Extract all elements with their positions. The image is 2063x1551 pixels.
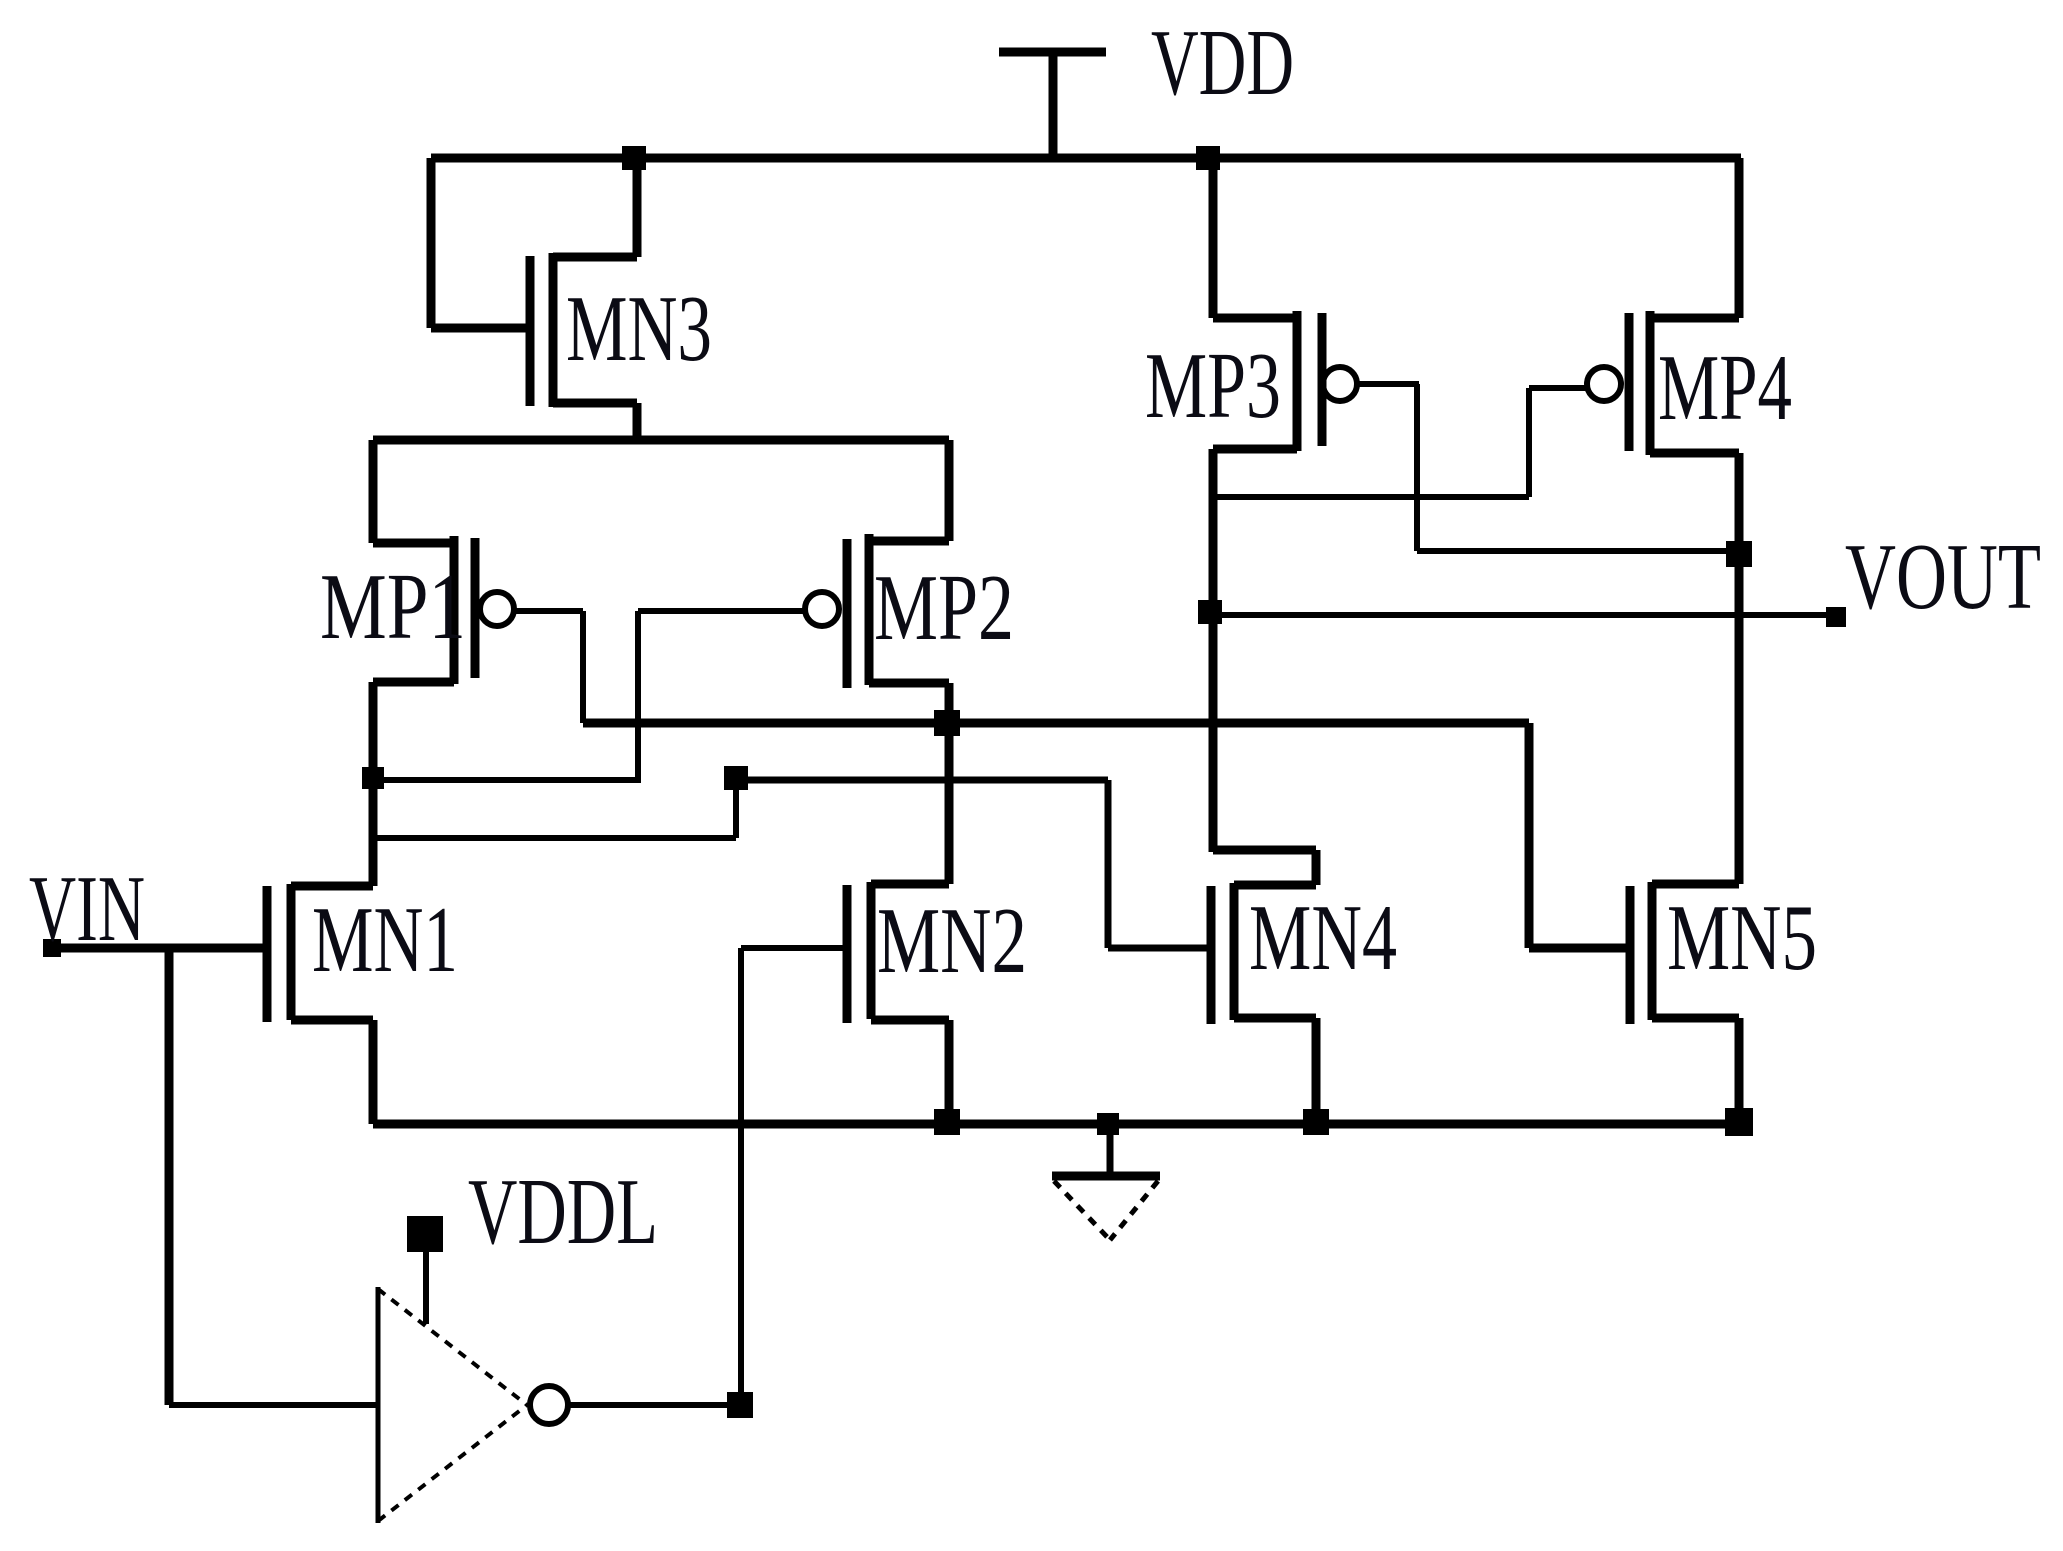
svg-text:MN1: MN1 [312,888,458,992]
svg-text:VOUT: VOUT [1845,525,2041,629]
svg-text:VDDL: VDDL [468,1160,658,1264]
svg-text:MN5: MN5 [1667,886,1817,990]
svg-text:MN3: MN3 [566,277,712,381]
svg-text:MP3: MP3 [1145,334,1281,438]
svg-text:MP2: MP2 [874,556,1014,660]
svg-text:VIN: VIN [29,857,145,961]
svg-text:MN4: MN4 [1249,886,1397,990]
svg-text:MN2: MN2 [877,889,1027,993]
svg-text:MP1: MP1 [320,555,466,659]
svg-text:VDD: VDD [1151,11,1294,115]
svg-text:MP4: MP4 [1658,336,1792,440]
